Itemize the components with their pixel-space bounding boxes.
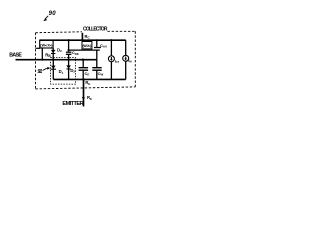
capacitor CAX [96, 40, 98, 47]
emitter lead wire [83, 79, 85, 106]
node: CAX on top rail [96, 39, 98, 41]
svg-text:(W•/X•): (W•/X•) [40, 44, 53, 48]
diode DC [52, 48, 54, 60]
node: connector on top rail [68, 39, 70, 41]
reference numeral 91 [37, 69, 42, 75]
svg-text:DC: DC [57, 47, 63, 53]
value label (Wc/Xc) inside box [83, 44, 92, 48]
wire: right column from sub-rail down to base-wire end [96, 50, 98, 60]
svg-text:RE: RE [85, 80, 90, 86]
node: DC column / base wire junction [52, 59, 54, 61]
label ICT [115, 59, 120, 64]
svg-text:ICT: ICT [115, 59, 120, 64]
wire: sub-rail [69, 49, 100, 51]
node: mid column / base wire junction [82, 59, 84, 61]
wire: stub from box boundary to RB [36, 47, 41, 49]
wire: bottom rail [53, 78, 125, 80]
label RE lower [87, 95, 92, 101]
leader arrow for 91 [43, 68, 49, 70]
reference numeral 90 [49, 11, 57, 17]
node: emitter junction on bottom rail [82, 78, 84, 80]
svg-text:RC: RC [85, 34, 91, 40]
svg-text:RB: RB [45, 52, 51, 58]
capacitor CE [79, 67, 89, 69]
svg-text:EMITTER: EMITTER [62, 101, 83, 107]
svg-text:CDE: CDE [72, 50, 79, 56]
COLLECTOR terminal label [83, 26, 108, 32]
svg-text:COLLECTOR: COLLECTOR [83, 26, 108, 32]
svg-text:90: 90 [49, 11, 57, 17]
wire: top rail [40, 39, 126, 41]
value label (Wb/Xb) inside RB box [40, 44, 53, 48]
BASE terminal label [9, 52, 22, 58]
node: CDE column / base wire junction [67, 59, 69, 61]
leader arrow for 90 [45, 16, 49, 20]
svg-text:91: 91 [37, 69, 42, 75]
inner dashed box (D1/D2 network) [51, 58, 76, 85]
EMITTER terminal label [62, 101, 83, 107]
label DC [57, 47, 63, 53]
current source ICT [110, 40, 112, 56]
node: ICT on top rail [110, 39, 112, 41]
svg-text:IM: IM [128, 59, 131, 64]
svg-text:D2: D2 [70, 68, 75, 74]
label CAX [100, 43, 107, 49]
svg-text:(W•X•): (W•X•) [83, 44, 92, 48]
label RC [85, 34, 91, 40]
resistor (Wc/Xc) box [82, 42, 92, 49]
diode D1 [52, 60, 54, 80]
collector lead wire [81, 33, 83, 40]
arrowhead on emitter lead [82, 97, 85, 101]
svg-text:CW: CW [98, 71, 104, 77]
label D1 [59, 69, 64, 75]
capacitor CW [96, 60, 98, 68]
node: RB/base wire junction [41, 59, 43, 61]
label CW [98, 71, 104, 77]
current source ICM [125, 40, 127, 55]
label CDE [72, 50, 79, 56]
svg-text:BASE: BASE [9, 52, 22, 58]
svg-text:CE: CE [85, 71, 90, 77]
label CE [85, 71, 90, 77]
wire: RB bottom to base wire [41, 48, 43, 60]
label RB [45, 52, 51, 58]
diode D2 [68, 60, 70, 80]
node: connector on sub-rail [68, 49, 70, 51]
wire: mid column below base wire [82, 60, 84, 68]
svg-text:RE: RE [87, 95, 92, 101]
svg-text:CAX: CAX [100, 43, 107, 49]
capacitor CDE [66, 51, 72, 53]
label RE upper [85, 80, 90, 86]
node: collector lead on top rail [81, 39, 83, 41]
svg-text:D1: D1 [59, 69, 64, 75]
wire: rail to sub-rail connector [68, 40, 70, 51]
label ICM [128, 59, 131, 64]
label D2 [70, 68, 75, 74]
resistor RB box [40, 40, 53, 48]
wire: base lead into box [16, 59, 97, 61]
outer dashed model box [36, 31, 83, 34]
